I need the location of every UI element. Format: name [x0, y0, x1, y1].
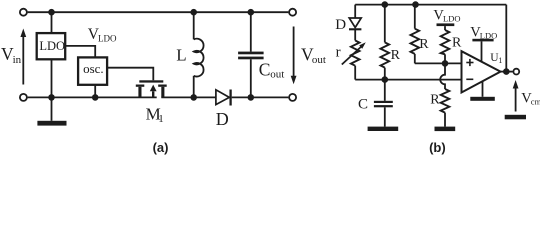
label D (a) — [216, 109, 229, 129]
arrow Vcmd — [515, 88, 517, 112]
diode D (b) — [349, 18, 361, 28]
svg-text:D: D — [335, 17, 346, 33]
svg-text:(a): (a) — [153, 140, 169, 155]
wire op-amp output — [501, 71, 513, 73]
label Vin — [1, 44, 22, 66]
wire top rail (b) — [355, 4, 506, 6]
caption (a) — [153, 140, 169, 155]
diode D (a) — [216, 90, 229, 105]
arrow Vin — [22, 36, 24, 85]
resistor R2 — [414, 5, 416, 29]
wire LDO bottom lead — [51, 59, 53, 97]
terminal output bottom — [289, 94, 296, 101]
node R1 top rail — [382, 1, 389, 8]
svg-text:R: R — [391, 48, 401, 63]
svg-text:osc.: osc. — [83, 61, 104, 76]
reference bar Vcmd — [505, 115, 526, 120]
svg-text:LDO: LDO — [39, 39, 65, 53]
resistor R3 pullup — [444, 26, 446, 30]
svg-text:LDO: LDO — [443, 14, 460, 24]
label Vcmd — [521, 91, 540, 107]
svg-text:(b): (b) — [429, 140, 446, 155]
node LDO bottom — [48, 94, 55, 101]
node Cout bottom — [248, 94, 255, 101]
label R2 — [419, 37, 429, 52]
svg-text:R: R — [419, 37, 429, 52]
label R1 — [391, 48, 401, 63]
capacitor C — [384, 80, 386, 101]
wire feedback vertical — [505, 5, 507, 72]
wire top rail (a) — [28, 11, 289, 13]
wire diode to r — [354, 29, 356, 40]
node osc bottom — [92, 94, 99, 101]
wire plus node down with hop over minus rail — [440, 63, 445, 89]
resistor R4 — [441, 89, 450, 113]
LDO block — [37, 33, 65, 59]
wire plus rail (b) — [415, 62, 462, 64]
terminal input top — [20, 9, 27, 16]
minus sign — [466, 78, 473, 80]
label C — [358, 97, 368, 113]
label Cout — [259, 59, 284, 80]
svg-text:C: C — [358, 97, 368, 113]
oscillator block osc — [78, 57, 107, 84]
svg-text:1: 1 — [158, 113, 164, 125]
resistor R1 — [384, 5, 386, 43]
wire bottom rail mid segment (a) — [161, 96, 216, 98]
svg-text:in: in — [13, 54, 22, 66]
caption (b) — [429, 140, 446, 155]
wire bottom rail left segment (a) — [28, 96, 157, 98]
svg-text:LDO: LDO — [98, 33, 117, 43]
transistor M1 — [136, 80, 167, 97]
supply VLDO op-amp — [470, 25, 497, 41]
svg-text:D: D — [216, 109, 229, 129]
capacitor Cout — [250, 12, 252, 51]
label M1 — [146, 104, 164, 125]
ground C — [368, 127, 399, 131]
node L top — [190, 9, 197, 16]
wire bottom rail right segment (a) — [232, 96, 289, 98]
label VLDO pullup — [433, 8, 460, 24]
node plus input — [442, 60, 449, 67]
svg-text:C: C — [259, 59, 271, 79]
wire LDO output to osc — [65, 46, 95, 58]
label R4 — [430, 93, 440, 108]
supply bar VLDO pullup — [437, 23, 455, 26]
wire minus rail (b) — [355, 79, 461, 81]
terminal output (b) — [513, 69, 519, 75]
op-amp U1 — [462, 51, 501, 92]
arrow of variable resistor r — [342, 45, 363, 65]
plus sign — [466, 62, 473, 64]
label U1 — [490, 52, 502, 65]
ground (a) — [51, 97, 53, 120]
arrow Vout — [293, 27, 295, 77]
node R2 top rail — [412, 1, 419, 8]
svg-text:R: R — [430, 93, 440, 108]
svg-text:cmd: cmd — [531, 97, 540, 107]
resistor r variable — [351, 41, 360, 66]
inductor L — [193, 12, 195, 39]
label VLDO (a) — [88, 26, 117, 44]
node output feedback — [503, 68, 510, 75]
node L bottom — [190, 94, 197, 101]
label D (b) — [335, 17, 346, 33]
label Vout — [301, 44, 326, 66]
terminal output top — [289, 9, 296, 16]
svg-text:L: L — [176, 46, 186, 65]
svg-text:r: r — [336, 45, 341, 61]
label L — [176, 46, 186, 65]
svg-text:R: R — [452, 36, 462, 51]
svg-text:out: out — [312, 54, 326, 66]
svg-text:1: 1 — [498, 56, 502, 65]
wire LDO top lead — [51, 12, 53, 33]
node C top — [382, 76, 389, 83]
wire osc bottom lead — [94, 85, 96, 98]
wire osc output to gate — [107, 68, 153, 81]
node Cout top — [248, 9, 255, 16]
ground op-amp — [482, 81, 484, 97]
node LDO top — [48, 9, 55, 16]
svg-text:out: out — [270, 69, 284, 81]
ground R4 — [435, 127, 456, 132]
label R3 — [452, 36, 462, 51]
terminal input bottom — [20, 94, 27, 101]
wire diode branch top lead — [354, 5, 356, 18]
label r — [336, 45, 341, 61]
